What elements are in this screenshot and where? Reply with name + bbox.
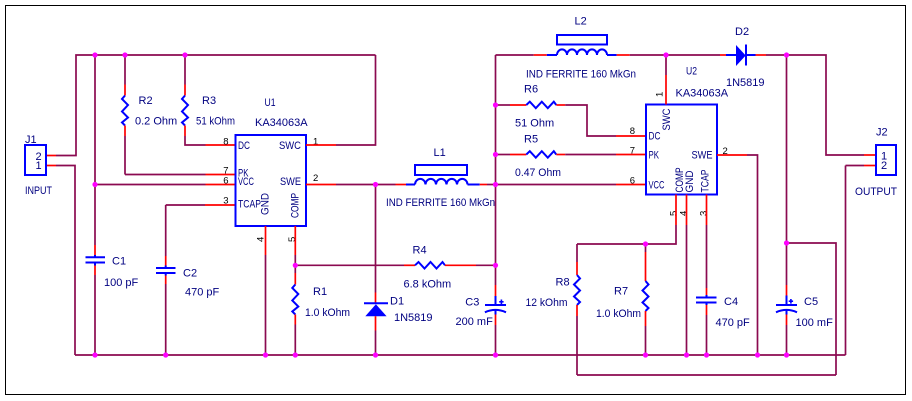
- svg-text:200 mF: 200 mF: [456, 316, 494, 328]
- node U2 COMP R7: [643, 241, 648, 246]
- wire L1 node to U2 pin6 VCC: [496, 184, 617, 186]
- wire COMP node to R4: [295, 264, 404, 266]
- resistor R8: [526, 244, 581, 375]
- svg-text:C3: C3: [465, 297, 479, 309]
- wire C1 branch vertical: [94, 55, 96, 245]
- wire R5 to U2 pin7: [616, 154, 646, 156]
- svg-text:KA34063A: KA34063A: [676, 88, 729, 100]
- op-amp U1 KA34063A: [223, 97, 318, 242]
- resistor R7: [596, 244, 649, 355]
- svg-text:0.47 Ohm: 0.47 Ohm: [515, 167, 561, 179]
- node rail R7: [643, 352, 648, 357]
- diode D1 1N5819: [364, 185, 433, 356]
- svg-text:R1: R1: [313, 286, 327, 298]
- wire U2 pin2 SWE right and down to rail: [717, 154, 747, 156]
- svg-text:J2: J2: [876, 127, 888, 139]
- connector J1: [25, 134, 52, 197]
- svg-text:IND FERRITE 160 MkGn: IND FERRITE 160 MkGn: [386, 197, 495, 209]
- op-amp U2 KA34063A: [630, 66, 729, 217]
- wire J2 pin2 down to ground rail: [864, 165, 876, 167]
- svg-text:1.0 kOhm: 1.0 kOhm: [305, 307, 350, 319]
- capacitor C2: [156, 268, 220, 299]
- resistor R3: [182, 55, 235, 145]
- svg-text:51 kOhm: 51 kOhm: [196, 116, 235, 128]
- svg-text:TCAP: TCAP: [238, 199, 261, 211]
- node L2 U2pin1: [663, 52, 668, 57]
- wire top rail J1 pin2 to U1 SWC: [46, 155, 56, 157]
- wire D2 node down to C5 and out link: [786, 55, 788, 243]
- svg-text:R5: R5: [524, 134, 538, 146]
- svg-text:4: 4: [679, 211, 690, 216]
- svg-text:L1: L1: [434, 147, 446, 159]
- svg-text:INPUT: INPUT: [25, 185, 52, 197]
- wire U1 pin2 SWE to L1: [306, 184, 336, 186]
- svg-text:6.8 kOhm: 6.8 kOhm: [404, 279, 452, 291]
- resistor R2: [122, 55, 177, 175]
- svg-text:6: 6: [630, 176, 635, 187]
- svg-text:0.2 Ohm: 0.2 Ohm: [135, 116, 177, 128]
- svg-text:1: 1: [313, 137, 318, 148]
- wire R2 bottom to U1 pin7 PK: [125, 174, 206, 176]
- capacitor C1: [86, 256, 139, 290]
- svg-text:1N5819: 1N5819: [726, 77, 765, 89]
- wire D2 out to J2 pin1: [787, 55, 865, 155]
- node out link: [784, 240, 789, 245]
- svg-text:TCAP: TCAP: [700, 170, 712, 193]
- node rail D1: [373, 352, 378, 357]
- svg-text:C2: C2: [183, 268, 197, 280]
- node R6 tap: [493, 102, 498, 107]
- svg-text:R7: R7: [614, 286, 628, 298]
- svg-text:D1: D1: [390, 296, 404, 308]
- node SWE D1: [373, 182, 378, 187]
- connector J2: [855, 127, 897, 199]
- resistor R5: [496, 134, 617, 180]
- inductor L1: [376, 147, 496, 209]
- wire R6 to U2 pin8: [616, 135, 646, 137]
- svg-text:U2: U2: [686, 66, 697, 78]
- node VCC x95: [92, 182, 97, 187]
- wire U2 pin5 COMP down and left: [675, 195, 677, 226]
- svg-text:1N5819: 1N5819: [394, 312, 433, 324]
- svg-text:2: 2: [313, 173, 318, 184]
- svg-text:R4: R4: [413, 245, 427, 257]
- wire VCC line x95 to U1 pin6: [95, 184, 206, 186]
- svg-text:470 pF: 470 pF: [185, 287, 220, 299]
- wire lower rail: [577, 374, 836, 376]
- svg-text:OUTPUT: OUTPUT: [855, 186, 897, 198]
- wire U2 pin4 GND down to rail: [686, 195, 688, 226]
- node R4 C3: [493, 263, 498, 268]
- svg-text:R3: R3: [202, 95, 216, 107]
- wire L2 node to D2: [666, 54, 720, 56]
- svg-text:GND: GND: [684, 170, 696, 192]
- node COMP R1: [293, 263, 298, 268]
- capacitor C4: [696, 296, 750, 329]
- svg-text:R6: R6: [524, 84, 538, 96]
- wire U2 pin3 TCAP down to C4: [706, 195, 708, 226]
- svg-text:C4: C4: [724, 296, 738, 308]
- wire U1 pin5 COMP down: [294, 226, 296, 255]
- svg-text:6: 6: [223, 176, 228, 187]
- node rail C4: [704, 352, 709, 357]
- wire U1 pin1 SWC up to top rail: [306, 144, 336, 146]
- svg-text:12 kOhm: 12 kOhm: [526, 297, 568, 309]
- capacitor C5 (polarized): [776, 296, 833, 329]
- resistor R6: [496, 84, 617, 137]
- svg-text:D2: D2: [735, 26, 749, 38]
- svg-text:1: 1: [36, 160, 42, 172]
- node rail SWE2: [755, 352, 760, 357]
- svg-text:VCC: VCC: [238, 176, 254, 188]
- node rail C5: [784, 352, 789, 357]
- svg-text:R8: R8: [556, 277, 570, 289]
- svg-text:3: 3: [223, 196, 228, 207]
- resistor R4: [404, 245, 496, 291]
- svg-text:2: 2: [881, 160, 887, 172]
- node rail C3: [493, 352, 498, 357]
- svg-text:DC: DC: [649, 131, 661, 143]
- svg-text:IND FERRITE 160 MkGn: IND FERRITE 160 MkGn: [526, 69, 636, 81]
- svg-text:DC: DC: [238, 140, 250, 152]
- inductor L2: [496, 16, 667, 81]
- svg-text:SWC: SWC: [661, 108, 673, 130]
- wire ground rail: [75, 354, 846, 356]
- svg-text:3: 3: [699, 211, 710, 216]
- svg-text:U1: U1: [265, 97, 276, 109]
- svg-text:100 mF: 100 mF: [796, 317, 834, 329]
- svg-text:C5: C5: [804, 296, 818, 308]
- node L1 VCC2: [493, 182, 498, 187]
- svg-text:1: 1: [655, 92, 666, 97]
- svg-text:GND: GND: [260, 193, 272, 215]
- node rail U1 GND: [263, 352, 268, 357]
- svg-text:L2: L2: [575, 16, 587, 28]
- wire C2 branch and U1 pin3 TCAP: [166, 204, 205, 206]
- wire R3 bottom to U1 pin8 DC: [206, 144, 236, 146]
- svg-text:C1: C1: [112, 256, 126, 268]
- svg-text:470 pF: 470 pF: [716, 317, 751, 329]
- svg-text:8: 8: [630, 126, 635, 137]
- node top rail R2: [122, 52, 127, 57]
- wire middle vertical bus x495.5: [495, 55, 497, 285]
- svg-text:R2: R2: [139, 95, 153, 107]
- node rail C1: [92, 352, 97, 357]
- node rail R1: [293, 352, 298, 357]
- svg-text:100 pF: 100 pF: [104, 277, 139, 289]
- svg-text:KA34063A: KA34063A: [255, 117, 308, 129]
- node rail C2: [163, 352, 168, 357]
- wire J1 pin1 down to ground rail: [46, 165, 56, 167]
- svg-text:J1: J1: [25, 134, 37, 146]
- wire output link to lower rail: [787, 243, 837, 375]
- node R5 tap: [493, 152, 498, 157]
- node top rail x95: [92, 52, 97, 57]
- svg-text:COMP: COMP: [290, 193, 302, 218]
- wire U1 pin4 GND down to rail: [265, 226, 267, 255]
- svg-text:7: 7: [630, 146, 635, 157]
- node top rail R3: [182, 52, 187, 57]
- svg-text:51 Ohm: 51 Ohm: [515, 118, 554, 130]
- svg-text:8: 8: [223, 137, 228, 148]
- svg-text:SWE: SWE: [280, 176, 301, 188]
- svg-text:SWE: SWE: [692, 150, 713, 162]
- node D2 out: [784, 52, 789, 57]
- diode D2 1N5819: [720, 26, 787, 89]
- svg-text:1.0 kOhm: 1.0 kOhm: [596, 308, 641, 320]
- svg-text:PK: PK: [649, 150, 660, 162]
- svg-text:SWC: SWC: [279, 140, 301, 152]
- capacitor C3 (polarized): [456, 297, 507, 329]
- resistor R1: [292, 265, 350, 355]
- wire U2 pin1 SWC up to L2/D2 rail: [665, 75, 667, 105]
- node rail U2 GND: [684, 352, 689, 357]
- svg-text:VCC: VCC: [649, 180, 665, 192]
